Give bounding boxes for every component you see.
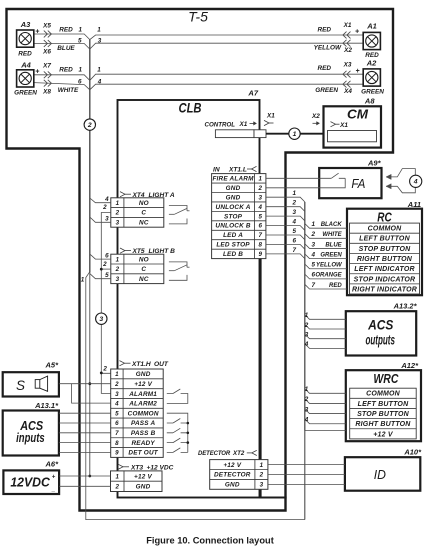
svg-text:XT2: XT2 [232,450,245,457]
svg-text:WHITE: WHITE [58,87,79,94]
svg-text:ALARM2: ALARM2 [128,401,157,408]
svg-text:XT5: XT5 [132,248,145,255]
svg-text:BLUE: BLUE [57,45,75,52]
svg-text:CONTROL: CONTROL [205,121,236,128]
svg-text:NO: NO [139,200,149,207]
svg-text:+12 V: +12 V [134,381,152,388]
svg-text:RED: RED [365,52,379,59]
svg-text:2: 2 [259,472,264,479]
svg-text:2: 2 [115,484,120,491]
svg-text:_: _ [51,486,56,492]
svg-text:1: 1 [305,386,309,393]
svg-text:XT1.H: XT1.H [131,361,151,368]
svg-text:RED: RED [318,27,332,34]
svg-text:4: 4 [257,204,262,211]
svg-text:inputs: inputs [16,430,45,445]
svg-text:X3: X3 [343,62,352,69]
svg-text:RC: RC [377,209,392,224]
svg-text:1: 1 [81,277,85,284]
svg-text:1: 1 [116,200,120,207]
svg-text:GND: GND [226,185,241,192]
svg-text:+: + [355,68,359,75]
svg-text:RIGHT BUTTON: RIGHT BUTTON [357,256,413,263]
svg-text:DETECTOR: DETECTOR [198,451,231,457]
svg-text:+: + [35,68,39,75]
svg-text:GREEN: GREEN [315,87,338,94]
svg-text:STOP INDICATOR: STOP INDICATOR [354,276,416,283]
svg-text:YELLOW: YELLOW [314,45,342,52]
svg-text:X4: X4 [343,88,352,95]
svg-text:CM: CM [347,107,369,122]
svg-text:FIRE ALARM: FIRE ALARM [212,176,254,183]
svg-text:RED: RED [59,27,73,34]
svg-text:LEFT BUTTON: LEFT BUTTON [358,401,409,408]
svg-text:RED: RED [318,65,332,72]
svg-text:WHITE: WHITE [322,232,342,238]
svg-text:3: 3 [258,194,262,201]
svg-text:7: 7 [312,282,316,289]
svg-text:1: 1 [97,27,101,34]
svg-text:5: 5 [293,228,297,235]
svg-text:X2: X2 [311,113,320,120]
svg-text:S: S [16,377,26,393]
svg-text:7: 7 [115,430,119,437]
svg-text:COMMON: COMMON [366,391,401,398]
svg-text:NC: NC [139,276,149,283]
svg-text:COMMON: COMMON [128,410,159,417]
svg-text:3: 3 [293,209,297,216]
svg-text:2: 2 [304,322,309,329]
svg-text:FA: FA [351,176,365,191]
svg-text:A7: A7 [247,89,258,98]
svg-text:9: 9 [115,450,119,457]
svg-text:12VDC: 12VDC [10,475,50,490]
svg-text:A10*: A10* [403,448,422,457]
svg-text:+12 VDC: +12 VDC [147,464,174,471]
svg-text:A11: A11 [407,200,421,209]
svg-text:UNLOCK A: UNLOCK A [216,204,251,211]
svg-text:RED: RED [59,67,73,74]
svg-text:+: + [52,474,56,480]
svg-text:2: 2 [87,122,92,129]
svg-text:3: 3 [116,220,120,227]
svg-text:BLUE: BLUE [325,242,342,248]
svg-text:ACS: ACS [367,318,393,333]
svg-text:X6: X6 [42,49,51,56]
svg-text:RIGHT INDICATOR: RIGHT INDICATOR [352,286,417,293]
svg-text:WRC: WRC [373,371,398,386]
svg-text:LIGHT A: LIGHT A [149,192,175,199]
svg-text:1: 1 [115,371,119,378]
svg-text:BLACK: BLACK [321,222,343,228]
svg-text:1: 1 [293,131,297,138]
svg-text:2: 2 [257,185,262,192]
svg-text:GREEN: GREEN [14,89,37,96]
svg-text:3: 3 [305,406,309,413]
svg-text:8: 8 [115,440,119,447]
svg-text:1: 1 [293,190,297,197]
svg-text:6: 6 [293,238,297,245]
svg-text:2: 2 [311,231,316,238]
svg-text:6: 6 [78,79,82,86]
svg-text:STOP BUTTON: STOP BUTTON [357,411,410,418]
svg-text:3: 3 [260,482,264,489]
svg-text:A13.1*: A13.1* [34,401,59,410]
svg-text:5: 5 [78,38,82,45]
svg-text:RED: RED [329,283,342,289]
svg-text:6: 6 [105,252,109,259]
svg-text:3: 3 [312,241,316,248]
svg-text:XT4: XT4 [132,192,145,199]
svg-text:LIGHT B: LIGHT B [149,248,176,255]
svg-text:4: 4 [292,219,297,226]
svg-text:STOP BUTTON: STOP BUTTON [359,246,412,253]
svg-text:4: 4 [304,341,309,348]
svg-text:T-5: T-5 [188,9,208,25]
svg-text:C: C [141,210,146,217]
svg-text:5: 5 [312,262,316,269]
svg-text:7: 7 [258,232,262,239]
svg-text:1: 1 [312,221,316,228]
svg-text:8: 8 [258,242,262,249]
svg-text:1: 1 [258,176,262,183]
svg-text:X1: X1 [266,113,275,120]
svg-text:RED: RED [18,51,32,58]
svg-text:A8: A8 [364,97,375,106]
svg-text:XT3: XT3 [130,464,143,471]
svg-text:RIGHT BUTTON: RIGHT BUTTON [355,421,411,428]
svg-text:4: 4 [304,417,309,424]
svg-text:OUT: OUT [154,361,169,368]
svg-text:CLB: CLB [179,100,202,116]
svg-text:1: 1 [116,473,120,480]
svg-text:A5*: A5* [44,361,59,370]
svg-text:PASS A: PASS A [131,420,155,427]
svg-text:6: 6 [258,223,262,230]
svg-text:XT1.L: XT1.L [228,166,247,173]
svg-text:COMMON: COMMON [368,226,403,233]
svg-text:2: 2 [292,200,297,207]
svg-text:GND: GND [226,194,241,201]
svg-text:LEFT BUTTON: LEFT BUTTON [359,236,410,243]
svg-text:READY: READY [131,440,155,447]
svg-text:GREEN: GREEN [361,89,384,96]
svg-text:1: 1 [305,312,309,319]
svg-text:A6*: A6* [44,460,59,469]
svg-text:2: 2 [102,204,107,211]
svg-text:+12 V: +12 V [373,431,394,438]
svg-text:PASS B: PASS B [131,430,156,437]
svg-text:4: 4 [97,79,102,86]
svg-text:Figure 10. Connection layout: Figure 10. Connection layout [146,536,274,546]
svg-text:1: 1 [78,27,82,34]
svg-text:+: + [355,28,359,35]
svg-text:A2: A2 [366,59,377,68]
svg-text:ALARM1: ALARM1 [128,391,157,398]
svg-text:3: 3 [305,332,309,339]
svg-text:X5: X5 [42,23,51,30]
svg-text:7: 7 [293,247,297,254]
svg-text:2: 2 [115,210,120,217]
svg-text:X1: X1 [339,122,348,129]
svg-text:1: 1 [260,462,264,469]
svg-text:+12 V: +12 V [134,473,152,480]
svg-text:5: 5 [115,410,119,417]
svg-text:A13.2*: A13.2* [393,302,418,311]
svg-text:GREEN: GREEN [320,252,342,258]
svg-text:C: C [141,266,146,273]
svg-text:4: 4 [104,196,109,203]
svg-text:1: 1 [116,256,120,263]
svg-text:DET OUT: DET OUT [128,450,158,457]
svg-text:3: 3 [99,316,103,323]
svg-text:STOP: STOP [224,213,243,220]
svg-text:+12 V: +12 V [223,462,241,469]
svg-text:outputs: outputs [365,333,395,348]
svg-text:DETECTOR: DETECTOR [214,472,251,479]
svg-text:3: 3 [115,391,119,398]
svg-text:LED B: LED B [223,251,243,258]
svg-text:2: 2 [115,266,120,273]
svg-text:2: 2 [304,396,309,403]
svg-text:X1: X1 [343,22,352,29]
svg-text:5: 5 [105,272,109,279]
svg-text:LEFT INDICATOR: LEFT INDICATOR [354,266,414,273]
svg-text:LED STOP: LED STOP [216,242,250,249]
svg-text:A4: A4 [20,60,31,69]
svg-text:ORANGE: ORANGE [315,273,342,279]
svg-text:GND: GND [225,482,240,489]
svg-text:3: 3 [116,276,120,283]
svg-text:9: 9 [258,251,262,258]
svg-text:UNLOCK B: UNLOCK B [215,223,251,230]
svg-text:X8: X8 [42,89,51,96]
svg-text:NO: NO [139,256,149,263]
svg-text:+: + [35,28,39,35]
svg-text:X7: X7 [42,63,51,70]
svg-text:4: 4 [413,179,418,186]
svg-text:6: 6 [115,420,119,427]
svg-text:IN: IN [213,166,220,173]
svg-text:A12*: A12* [400,361,419,370]
svg-text:4: 4 [311,251,316,258]
svg-text:ID: ID [374,467,386,482]
svg-text:1: 1 [78,67,82,74]
svg-text:X2: X2 [343,47,352,54]
svg-text:A1: A1 [366,22,377,31]
svg-text:2: 2 [114,381,119,388]
svg-text:3: 3 [98,38,102,45]
svg-text:YELLOW: YELLOW [316,263,343,269]
svg-text:X1: X1 [239,121,248,128]
svg-text:GND: GND [136,371,151,378]
svg-text:3: 3 [105,216,109,223]
svg-text:GND: GND [136,484,151,491]
svg-text:1: 1 [97,67,101,74]
svg-text:2: 2 [102,261,107,268]
svg-text:LED A: LED A [223,232,243,239]
svg-text:A9*: A9* [367,159,382,168]
svg-text:5: 5 [258,213,262,220]
svg-text:NC: NC [139,220,149,227]
svg-text:A3: A3 [20,20,31,29]
svg-text:2: 2 [102,365,107,372]
svg-text:4: 4 [114,401,119,408]
